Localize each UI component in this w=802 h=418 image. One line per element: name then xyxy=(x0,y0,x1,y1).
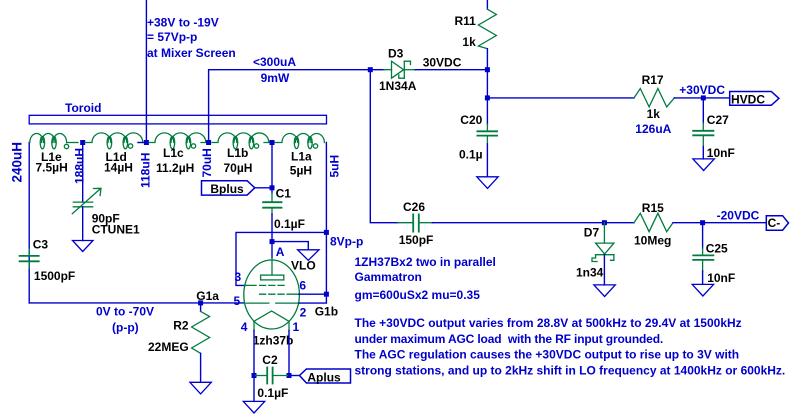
svg-text:= 57Vp-p: = 57Vp-p xyxy=(147,30,197,44)
wire CTUNE drop x=82.7 xyxy=(82,145,84,202)
svg-text:C2: C2 xyxy=(262,353,278,367)
ground C2 xyxy=(243,401,264,413)
capacitor C1 xyxy=(271,193,273,202)
capacitor C20 xyxy=(486,98,488,124)
svg-text:C1: C1 xyxy=(276,186,292,200)
node (254,375.5) xyxy=(252,373,257,378)
svg-text:The +30VDC output varies from: The +30VDC output varies from 28.8V at 5… xyxy=(355,316,742,330)
svg-text:Toroid: Toroid xyxy=(65,101,101,115)
svg-text:240uH: 240uH xyxy=(10,142,25,183)
capacitor C3 xyxy=(28,249,30,256)
svg-text:L1a: L1a xyxy=(291,150,312,164)
node (703,98) xyxy=(701,95,706,100)
svg-text:2: 2 xyxy=(300,305,307,319)
svg-text:10Meg: 10Meg xyxy=(634,234,671,248)
svg-text:14µH: 14µH xyxy=(104,161,133,175)
svg-text:(p-p): (p-p) xyxy=(112,321,139,335)
capacitor C27 xyxy=(702,98,704,123)
inductor L1b xyxy=(212,133,269,149)
svg-text:Aplus: Aplus xyxy=(307,370,341,384)
svg-text:D7: D7 xyxy=(584,225,600,239)
node row x=209 xyxy=(206,140,211,145)
svg-text:0.1µ: 0.1µ xyxy=(459,147,483,161)
svg-text:150pF: 150pF xyxy=(399,233,434,247)
port flag HVDC xyxy=(730,92,779,106)
wire tube pin4 down xyxy=(253,331,255,376)
resistor R15 xyxy=(634,213,673,231)
svg-text:1k: 1k xyxy=(647,107,661,121)
svg-text:under maximum AGC load with t: under maximum AGC load with the RF input… xyxy=(355,332,664,346)
wire x=326.4 row to G1b xyxy=(325,143,327,295)
svg-text:7.5µH: 7.5µH xyxy=(36,161,68,175)
svg-text:G1b: G1b xyxy=(315,305,338,319)
svg-text:1ZH37Bx2 two in parallel: 1ZH37Bx2 two in parallel xyxy=(355,255,496,269)
svg-text:L1b: L1b xyxy=(227,146,248,160)
wire node to D3 anode xyxy=(372,69,384,71)
svg-text:70µH: 70µH xyxy=(224,161,253,175)
svg-text:at Mixer Screen: at Mixer Screen xyxy=(147,46,236,60)
node (604,223) xyxy=(602,220,607,225)
svg-text:CTUNE1: CTUNE1 xyxy=(92,223,140,237)
svg-text:<300uA: <300uA xyxy=(253,55,296,69)
wire left vertical x=29 from coil row down to G1a row xyxy=(28,143,30,303)
svg-text:The AGC regulation causes the: The AGC regulation causes the +30VDC out… xyxy=(355,348,740,362)
svg-text:126uA: 126uA xyxy=(635,122,671,136)
node (289,375.5) xyxy=(287,373,292,378)
wire x=272 row to Bplus node xyxy=(271,145,273,193)
node row x=272 xyxy=(270,140,275,145)
svg-text:+30VDC: +30VDC xyxy=(679,83,725,97)
capacitor C26 xyxy=(398,214,432,231)
svg-text:70uH: 70uH xyxy=(200,148,214,177)
svg-text:1500pF: 1500pF xyxy=(34,269,75,283)
resistor R17 xyxy=(634,89,674,107)
capacitor CTUNE1 variable xyxy=(72,188,101,213)
svg-text:22MEG: 22MEG xyxy=(148,340,189,354)
svg-text:11.2µH: 11.2µH xyxy=(156,161,194,175)
node (702.6,223) xyxy=(700,220,705,225)
node (272,188) xyxy=(270,185,275,190)
wire CTUNE to ground xyxy=(82,207,84,241)
wire x=209 up and across to D3 xyxy=(209,70,371,143)
wire tube pin1 down xyxy=(288,331,290,376)
node G1a xyxy=(198,300,203,305)
svg-text:strong stations, and up to 2kH: strong stations, and up to 2kHz shift in… xyxy=(355,364,786,378)
ground D7 xyxy=(594,285,615,297)
wire vertical from top at x=146 xyxy=(145,0,147,143)
node row x=146 xyxy=(144,140,149,145)
svg-text:0.1µF: 0.1µF xyxy=(274,217,305,231)
svg-text:VLO: VLO xyxy=(291,259,316,273)
svg-text:5uH: 5uH xyxy=(328,155,342,178)
wire node to R17 xyxy=(487,97,634,99)
wire pin2 loop xyxy=(299,294,327,303)
node row x=82 xyxy=(80,140,85,145)
wire R15 to C- xyxy=(673,222,766,224)
wire C1 down to A node xyxy=(271,214,273,242)
svg-text:-20VDC: -20VDC xyxy=(717,209,760,223)
svg-text:Bplus: Bplus xyxy=(210,182,244,196)
wire node to Aplus xyxy=(289,375,300,377)
node (326.4,232.4) xyxy=(324,230,329,235)
svg-text:C20: C20 xyxy=(460,113,482,127)
ground C25 xyxy=(692,284,713,296)
wire D3 to R11 node xyxy=(415,69,487,71)
diode D3 xyxy=(384,61,415,78)
tube U1 1zh37b xyxy=(244,258,300,331)
resistor R11 xyxy=(486,0,488,9)
inductor L1e xyxy=(30,134,78,149)
svg-text:HVDC: HVDC xyxy=(731,93,765,107)
wire A node to ground xyxy=(272,242,308,250)
inductor L1a xyxy=(275,134,324,149)
wire R17 to HVDC xyxy=(674,97,729,99)
node (487,70) xyxy=(485,67,490,72)
capacitor C2 xyxy=(254,368,289,384)
toroid box xyxy=(29,115,326,124)
ground R2 xyxy=(190,382,211,394)
svg-text:A: A xyxy=(276,245,285,259)
wire x=370 down to C26 xyxy=(370,70,398,223)
svg-text:30VDC: 30VDC xyxy=(423,56,462,70)
svg-text:10nF: 10nF xyxy=(707,146,735,160)
inductor L1c xyxy=(149,133,206,149)
node A (272,241.6) xyxy=(270,239,275,244)
svg-text:1zh37b: 1zh37b xyxy=(253,334,294,348)
svg-text:C-: C- xyxy=(768,216,781,230)
svg-text:1k: 1k xyxy=(462,35,476,49)
svg-text:5: 5 xyxy=(234,294,241,308)
wire C2 left node to ground xyxy=(253,376,255,402)
ground C27 xyxy=(693,159,714,171)
wire G1a row horizontal xyxy=(29,302,244,304)
svg-text:C3: C3 xyxy=(33,238,49,252)
svg-text:gm=600uSx2 mu=0.35: gm=600uSx2 mu=0.35 xyxy=(355,288,481,302)
svg-text:G1a: G1a xyxy=(196,289,219,303)
port flag Bplus xyxy=(202,181,255,195)
svg-text:L1c: L1c xyxy=(163,146,184,160)
svg-text:1: 1 xyxy=(293,320,300,334)
ground C20 xyxy=(477,177,498,189)
svg-text:1n34: 1n34 xyxy=(576,266,604,280)
svg-text:D3: D3 xyxy=(388,47,404,61)
svg-text:8Vp-p: 8Vp-p xyxy=(330,235,363,249)
port flag C- xyxy=(766,216,788,231)
port flag Aplus xyxy=(300,369,351,383)
wire pin6 to G1b node xyxy=(299,293,327,295)
resistor R2 xyxy=(200,303,202,312)
svg-text:C25: C25 xyxy=(706,241,728,255)
svg-text:6: 6 xyxy=(299,279,306,293)
svg-text:C27: C27 xyxy=(707,113,729,127)
svg-text:3: 3 xyxy=(235,270,242,284)
svg-text:118uH: 118uH xyxy=(139,153,153,188)
inductor L1d xyxy=(85,133,144,149)
svg-text:10nF: 10nF xyxy=(707,271,735,285)
ground CTUNE1 xyxy=(73,241,94,252)
svg-text:R17: R17 xyxy=(642,73,664,87)
svg-text:4: 4 xyxy=(241,320,248,334)
diode D7 xyxy=(592,223,614,262)
svg-text:R2: R2 xyxy=(173,319,189,333)
wire D7 to ground xyxy=(603,255,605,285)
svg-text:188uH: 188uH xyxy=(73,148,87,184)
wire pin3 riser and top wire xyxy=(236,232,326,285)
svg-text:0V to -70V: 0V to -70V xyxy=(96,305,154,319)
svg-text:5µH: 5µH xyxy=(290,164,312,178)
wire C26 to D7 to R15 xyxy=(432,222,634,224)
svg-text:1N34A: 1N34A xyxy=(379,79,417,93)
capacitor C25 xyxy=(702,223,704,248)
ground near VLO xyxy=(298,250,319,260)
svg-text:R11: R11 xyxy=(455,14,477,28)
svg-text:C26: C26 xyxy=(403,200,425,214)
wire plate lead xyxy=(271,242,273,258)
wire Bplus to node xyxy=(255,187,272,189)
svg-text:0.1µF: 0.1µF xyxy=(257,386,288,400)
svg-text:+38V to -19V: +38V to -19V xyxy=(147,16,219,30)
svg-text:9mW: 9mW xyxy=(261,71,290,85)
node (370,70) xyxy=(368,67,373,72)
node G1b (326.4,294.2) xyxy=(324,292,329,297)
svg-text:R15: R15 xyxy=(642,201,664,215)
svg-text:Gammatron: Gammatron xyxy=(355,270,422,284)
node (487,98) xyxy=(485,95,490,100)
